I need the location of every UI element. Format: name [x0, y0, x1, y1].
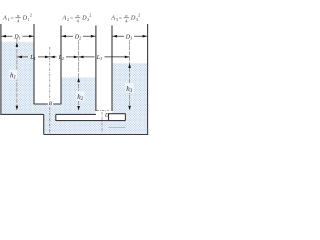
liquid lower pipe band: [55, 121, 147, 134]
svg-text:2: 2: [138, 12, 140, 17]
dimension D3: [112, 35, 147, 37]
channel inner wall: [55, 114, 57, 121]
formula A1: [2, 12, 32, 23]
svg-text:=: =: [11, 15, 14, 21]
liquid left channel: [44, 114, 55, 134]
liquid tank 1: [1, 42, 33, 115]
centerline tank1 / h1 line: [16, 38, 18, 109]
tank2 bottom edge: [56, 113, 96, 115]
mid shelf line: [56, 120, 126, 122]
centerline tank3 / h3 line: [129, 40, 131, 109]
liquid gap1 pipe: [34, 105, 61, 115]
svg-text:A: A: [2, 15, 7, 22]
white block C under tank3 left: [109, 114, 126, 121]
liquid tank 3: [112, 63, 147, 134]
centerline node B vertical: [49, 47, 51, 101]
block C left: [108, 114, 110, 121]
wall tank1 left (outer): [0, 24, 2, 115]
h1 dimension: [16, 42, 19, 47]
centerline node D vertical: [101, 112, 103, 134]
channel outer wall: [43, 114, 45, 134]
white gap above right channel entry: [96, 111, 108, 121]
dimension D2: [61, 35, 95, 37]
svg-text:D1: D1: [13, 34, 20, 40]
svg-text:L1: L1: [29, 55, 35, 61]
wall tank3 left: [111, 26, 113, 112]
svg-text:D2: D2: [74, 34, 81, 40]
svg-text:A: A: [110, 15, 115, 22]
block C right: [124, 114, 126, 121]
svg-text:D: D: [104, 113, 109, 119]
liquid tank 2: [61, 77, 95, 115]
svg-text:=: =: [70, 15, 73, 21]
hydraulics diagram: three tanks with bottom piping: [0, 0, 150, 150]
dimension L row: [17, 56, 129, 58]
svg-text:3: 3: [116, 17, 118, 22]
datum dash line at D: [96, 110, 108, 112]
h2 dimension: [77, 78, 80, 83]
svg-text:2: 2: [67, 17, 69, 22]
faint pipe top under block C: [109, 127, 126, 129]
wall tank1 right: [33, 24, 35, 104]
dimension D1: [1, 35, 33, 37]
svg-text:1: 1: [7, 17, 9, 22]
svg-text:A: A: [62, 15, 67, 22]
outer bottom: [44, 134, 148, 136]
svg-text:1: 1: [28, 17, 30, 22]
formula A2: [62, 12, 92, 23]
centerline dash-dot tank1: [50, 47, 109, 134]
svg-text:L2: L2: [58, 55, 64, 61]
centerline tank2 / h2 line: [78, 40, 80, 109]
svg-text:D3: D3: [125, 34, 132, 40]
wall tank3 right (outer): [147, 24, 149, 135]
gap1 pipe top edge: [34, 103, 61, 105]
node B label: [48, 100, 53, 105]
svg-text:L3: L3: [96, 55, 102, 61]
wall tank2 left: [60, 26, 62, 105]
svg-text:2: 2: [87, 17, 89, 22]
h3 dimension: [128, 63, 131, 68]
svg-text:2: 2: [89, 12, 91, 17]
svg-text:=: =: [119, 15, 122, 21]
bottom edge left: [0, 113, 43, 115]
block C top: [109, 113, 126, 115]
formula A3: [110, 12, 140, 23]
wall tank2 right: [95, 26, 97, 112]
svg-text:3: 3: [136, 17, 138, 22]
svg-text:2: 2: [30, 12, 32, 17]
